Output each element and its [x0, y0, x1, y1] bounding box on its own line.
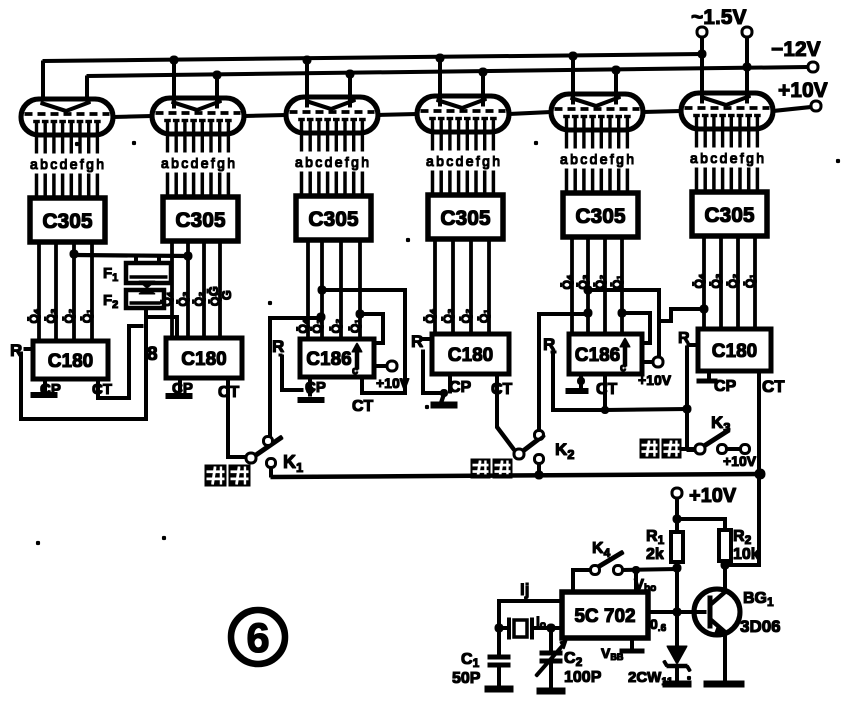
label: 3D06 [740, 617, 781, 636]
label: reset input of stage 2 [147, 344, 158, 365]
ground at BG1 emitter [704, 681, 744, 687]
switch K1 (hour set) [247, 437, 283, 467]
wire: V6 segment leads to decoder [697, 168, 758, 192]
power terminal ~1.5V (two pins) [691, 6, 752, 37]
label: reset pin R of stage 6 [678, 330, 690, 347]
svg-text:C305: C305 [440, 207, 491, 230]
label: output pins of counter 2 [160, 291, 222, 306]
svg-text:CT: CT [762, 377, 785, 396]
power terminal +10V (oscillator) [673, 485, 737, 507]
capacitor C1 [488, 657, 510, 688]
wire: +10V feed to R1/R2 [673, 498, 725, 532]
svg-text:CT: CT [596, 381, 618, 398]
wire: K2 contact to common set line [535, 463, 543, 479]
label: CP pin of stage 3 [305, 379, 326, 396]
transistor BG1 3D06 [694, 566, 740, 682]
wire: IC left upper pin loop [495, 601, 562, 655]
decoder U4 C305 [428, 195, 503, 239]
label: segment pins abcdefgh of V2 [161, 155, 235, 171]
svg-text:2k: 2k [646, 546, 664, 563]
label: R1 2k [646, 528, 665, 563]
wire: stage-1 Q through to stage-2 Q over F1 [70, 250, 192, 260]
counter U8 C180 (stage 2) [166, 338, 242, 378]
display tube V5 (7-seg indicator) [551, 94, 643, 148]
label: Vss pin [601, 645, 624, 662]
svg-text:~1.5V: ~1.5V [691, 6, 746, 29]
terminal: stage-5 preset to +10V [642, 358, 663, 367]
label: output pins of counter 5 [560, 274, 624, 289]
counter U9 C186 (stage 3) [300, 339, 374, 377]
display tube V1 (7-seg indicator) [21, 99, 113, 153]
ground at stage-4 CP [431, 374, 457, 405]
svg-text:C305: C305 [308, 208, 359, 231]
svg-text:Q̄₃: Q̄₃ [44, 309, 58, 324]
wire: stage-3 reset to CP node [279, 355, 303, 390]
svg-text:abcdefgh: abcdefgh [295, 154, 369, 170]
svg-text:CP: CP [449, 379, 472, 396]
svg-text:Q̄₃: Q̄₃ [441, 309, 455, 324]
label: jiao-miao (set seconds) [640, 439, 695, 458]
oscillator IC 5C702 [562, 592, 648, 638]
wire: stage-5 CT to K3 line [602, 374, 688, 414]
label: segment pins abcdefgh of V6 [690, 150, 764, 166]
wire: V4 segment leads to decoder [433, 171, 494, 195]
power terminal -12V [771, 38, 821, 72]
wire: stage-6 CT down to pulse line [758, 371, 761, 473]
wire: IC Vss pin to ground [631, 638, 634, 650]
svg-text:C186: C186 [575, 345, 620, 366]
svg-text:CT: CT [352, 398, 374, 415]
svg-text:C305: C305 [575, 205, 626, 228]
wire: rail B drops into tube tops [87, 67, 747, 108]
wire: V1 segment leads to decoder [37, 174, 98, 198]
svg-text:−12V: −12V [771, 38, 821, 61]
label: 0.6 output pin [650, 616, 667, 634]
ground at zener [663, 681, 691, 687]
svg-text:+10V: +10V [689, 485, 737, 507]
label: CP pin of stage 4 [449, 379, 472, 396]
svg-text:10k: 10k [733, 546, 760, 563]
ground at stage-6 CP [697, 371, 717, 381]
wire: stage-1 CT up to F2 output node [98, 326, 143, 398]
svg-text:6: 6 [246, 614, 269, 661]
label: BG1 [743, 590, 774, 609]
svg-text:c: c [620, 362, 626, 374]
svg-text:C180: C180 [448, 345, 493, 366]
resistor R1 [671, 532, 683, 562]
wire: stage-5 reset down to set bus [551, 352, 605, 410]
label: Vbb pin [634, 576, 656, 594]
wire: BCD lines between C305-6 and counter 6 [704, 236, 755, 329]
wire: stage-1 reset feedback loop [21, 317, 146, 419]
svg-text:50P: 50P [452, 670, 481, 687]
gate F1 [126, 263, 171, 283]
svg-text:Q̄₄: Q̄₄ [296, 318, 310, 333]
wire: BCD lines between C305-5 and counter 5 [572, 237, 622, 334]
svg-text:c: c [352, 365, 358, 377]
display tube V3 (7-seg indicator) [286, 97, 378, 151]
decoder U5 C305 [563, 193, 638, 237]
crystal JT [499, 618, 562, 639]
label: jiao-fen (set minutes) [471, 459, 512, 478]
svg-text:CP: CP [714, 378, 737, 395]
ground at stage-1 CP [31, 379, 57, 395]
decoder U6 C305 [692, 192, 767, 236]
svg-text:C305: C305 [704, 204, 755, 227]
svg-text:abcdefgh: abcdefgh [30, 156, 104, 172]
display tube V2 (7-seg indicator) [152, 98, 244, 152]
label: reset pin R of stage 3 [272, 337, 284, 356]
svg-text:Q̄₄: Q̄₄ [423, 308, 437, 323]
label: CT pin of stage 5 [596, 381, 618, 398]
svg-text:CT: CT [92, 381, 112, 398]
svg-text:Q̄₂: Q̄₂ [329, 319, 343, 334]
label: Io pin [536, 613, 546, 631]
label: output pins of counter 3 [296, 318, 362, 333]
display tube V4 (7-seg indicator) [417, 96, 509, 150]
label: K3 [711, 413, 731, 435]
wire: V3 segment leads to decoder [302, 172, 363, 196]
svg-text:Q̄₁: Q̄₁ [610, 275, 624, 289]
svg-text:Ij: Ij [520, 580, 529, 599]
wire: BCD lines between C305-2 and counter 2 [172, 241, 220, 338]
svg-text:abcdefgh: abcdefgh [161, 155, 235, 171]
wire: filament rail B / -12V bus (lower) [87, 63, 808, 79]
wire: F2 output node to stage-2 [146, 308, 177, 338]
wire: stage-5 loop Q2 to preset terminal [584, 286, 659, 357]
wire: common pulse line from K1/K2 to oscillator [271, 469, 765, 479]
wire: stage-3 loop Q2 around box to bottom pin [318, 286, 405, 393]
wire: K1 contact to common set line [270, 467, 273, 477]
switch K2 (minute set) [515, 431, 545, 463]
label: output pins of counter 4 [423, 308, 491, 323]
svg-text:Q̄₁: Q̄₁ [477, 309, 491, 323]
svg-text:Q̄₂: Q̄₂ [593, 275, 607, 290]
label: CP pin of stage 1 [40, 381, 61, 398]
wire: stage-2 CT down to switch K1 [228, 378, 246, 457]
svg-text:3D06: 3D06 [740, 617, 781, 636]
counter U10 C180 (stage 4) [432, 334, 509, 374]
wire: ~1.5V pin 2 stem through rail B [746, 36, 749, 67]
ground at C2 [537, 688, 565, 694]
label: reset pin R of stage 4 [411, 332, 423, 351]
svg-text:8: 8 [147, 344, 158, 365]
svg-text:Q̄₂: Q̄₂ [726, 274, 740, 289]
svg-text:Q̄₄: Q̄₄ [27, 308, 41, 323]
wire: BCD lines between C305-3 and counter 3 [308, 240, 360, 339]
label: K1 [283, 452, 303, 475]
wire: drops into F1 inputs [136, 255, 159, 263]
svg-text:Q̄₂: Q̄₂ [192, 292, 206, 307]
wire: V5 segment leads to decoder [567, 169, 628, 193]
wire: BCD lines between C305-1 and counter 1 [39, 242, 92, 341]
wire: BCD lines between C305-4 and counter 4 [435, 239, 489, 334]
ground at stage-2 CP [166, 378, 192, 396]
label: 2CW11 [628, 669, 673, 688]
label: CT pin of stage 2 [218, 384, 240, 401]
svg-text:Ḡ: Ḡ [206, 286, 221, 296]
wire: stage-4 reset to CP node [420, 339, 440, 393]
label: segment pins abcdefgh of V3 [295, 154, 369, 170]
wire: stage-3 loop Q4 to preset pin [356, 310, 383, 343]
svg-text:Q̄₄: Q̄₄ [160, 291, 174, 306]
gate F2 [126, 290, 164, 308]
svg-text:C180: C180 [712, 341, 757, 362]
label: F2 [103, 292, 118, 311]
counter U12 C180 (stage 6) [698, 329, 771, 371]
svg-text:CT: CT [491, 381, 513, 398]
switch K3 (second set) [696, 430, 750, 454]
label: C1 50P [452, 651, 481, 687]
svg-text:Q̄₄: Q̄₄ [560, 274, 574, 289]
label: CT pin of stage 3 [352, 398, 374, 415]
decoder U3 C305 [296, 196, 371, 240]
wire: pulse line down to collector node [721, 474, 759, 569]
svg-text:C305: C305 [42, 210, 93, 233]
svg-text:Q̄₄: Q̄₄ [692, 273, 706, 288]
counter U7 C180 (stage 1) [33, 341, 108, 379]
wire: rail A drops into tube tops [43, 54, 702, 108]
decoder U1 C305 [30, 198, 105, 242]
power terminal +10V (anode supply) [778, 79, 828, 111]
wire: K4 right to R1 bottom [622, 567, 677, 593]
label: CT pin of stage 6 [762, 377, 785, 396]
svg-text:C180: C180 [48, 351, 93, 372]
label: CT pin of stage 4 [491, 381, 513, 398]
ground at IC Vss [620, 649, 644, 653]
wire: ~1.5V pin 1 stem to rail A [701, 36, 704, 54]
svg-text:Ḡ: Ḡ [219, 290, 234, 300]
label: gate signal G of stage 2 [206, 286, 234, 300]
label: K2 [555, 440, 575, 462]
svg-text:R: R [411, 332, 423, 351]
svg-text:Q̄₁: Q̄₁ [80, 309, 94, 323]
wire: filament rail A (~1.5V bus, upper) [43, 50, 706, 64]
switch K4 (oscillator test) [591, 552, 623, 574]
ground at stage-3 CP [298, 377, 324, 400]
label: reset pin R of stage 1 [10, 341, 22, 360]
label: figure number 6 [231, 610, 285, 664]
wire: V2 segment leads to decoder [168, 173, 229, 197]
decoder U2 C305 [163, 197, 238, 241]
wire: stage-5 loop Q4 to preset pin [618, 309, 650, 343]
terminal: stage-3 preset to +10V [374, 362, 397, 371]
ground at C1 [485, 686, 513, 692]
svg-text:Q̄₁: Q̄₁ [348, 319, 362, 333]
label: CP pin of stage 6 [714, 378, 737, 395]
display tube V6 (7-seg indicator) [681, 93, 773, 147]
wire: stage-6 Q1 feedback to stage-5 loop [659, 305, 708, 321]
wire: stage-6 reset down to K3 pole [683, 345, 698, 450]
label: K4 [592, 540, 611, 560]
capacitor C2 (trimmer) [536, 628, 567, 690]
wire: R1 bottom to output node and zener [673, 562, 681, 646]
wire: stage-4 CT down to switch K2 [497, 374, 515, 451]
wire: F1 output to F2 (bowtie link) [139, 281, 155, 294]
wire: K4 left to IC pin [573, 570, 591, 592]
wire: K1 pole up to stage-3 input [270, 313, 325, 436]
label: +10V at stage 3 [376, 375, 410, 391]
svg-text:+10V: +10V [778, 79, 828, 102]
svg-text:abcdefgh: abcdefgh [560, 151, 634, 167]
zener diode 2CW11 [664, 646, 690, 682]
label: CP pin of stage 2 [172, 380, 193, 397]
label: +10V at K3 [723, 453, 757, 469]
label: segment pins abcdefgh of V5 [560, 151, 634, 167]
svg-text:Q̄₃: Q̄₃ [176, 292, 190, 307]
svg-text:+10V: +10V [723, 453, 757, 469]
svg-text:C180: C180 [181, 349, 226, 370]
svg-text:R: R [272, 337, 284, 356]
svg-text:100P: 100P [564, 669, 602, 686]
svg-text:+10V: +10V [376, 375, 410, 391]
label: output pins of counter 6 [692, 273, 757, 288]
label: reset pin R of stage 5 [543, 335, 555, 354]
svg-text:abcdefgh: abcdefgh [426, 153, 500, 169]
label: +10V at stage 5 [638, 372, 672, 388]
label: segment pins abcdefgh of V4 [426, 153, 500, 169]
svg-text:+10V: +10V [638, 372, 672, 388]
svg-text:Q̄₂: Q̄₂ [62, 309, 76, 324]
label: R2 10k [733, 528, 760, 563]
label: C2 100P [564, 650, 602, 686]
svg-text:Q̄₂: Q̄₂ [459, 309, 473, 324]
svg-text:Q̄₁: Q̄₁ [743, 274, 757, 288]
counter U11 C186 (stage 5) [569, 334, 642, 374]
label: output pins of counter 1 [27, 308, 94, 323]
wire: K2 pole up to stage-5 input [539, 309, 592, 431]
label: jiao-shi (set hours) [205, 465, 250, 486]
ground at stage-5 CP [566, 374, 588, 391]
svg-text:abcdefgh: abcdefgh [690, 150, 764, 166]
label: segment pins abcdefgh of V1 [30, 156, 104, 172]
label: CT pin of stage 1 [92, 381, 112, 398]
svg-text:5C 702: 5C 702 [574, 606, 635, 627]
wire: IC output to transistor base [648, 611, 706, 614]
resistor R2 [719, 530, 731, 561]
wire: +10V anode chain through tubes [113, 107, 811, 117]
label: F1 [103, 265, 118, 284]
svg-text:Q̄₃: Q̄₃ [709, 274, 723, 289]
label: JT crystal [520, 580, 529, 599]
svg-text:C186: C186 [306, 349, 351, 370]
svg-text:C305: C305 [175, 209, 226, 232]
